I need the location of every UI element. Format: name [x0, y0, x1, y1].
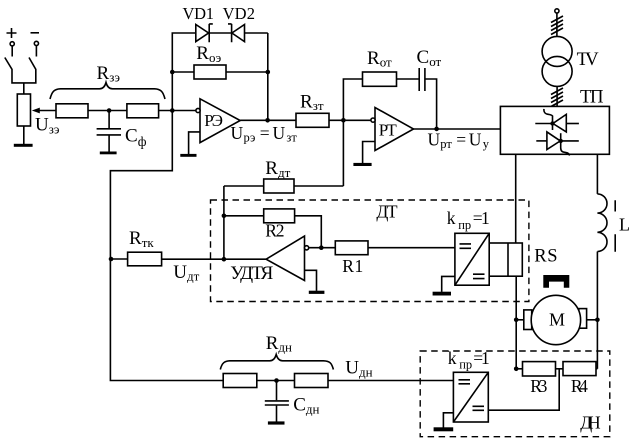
svg-text:=: = [260, 123, 270, 143]
svg-text:=1: =1 [473, 208, 490, 228]
svg-text:ТП: ТП [580, 87, 604, 108]
svg-text:=1: =1 [473, 348, 490, 368]
svg-text:VD2: VD2 [223, 4, 255, 23]
svg-text:U: U [273, 123, 286, 143]
svg-text:Rдт: Rдт [265, 158, 290, 180]
svg-text:U: U [231, 123, 244, 143]
svg-text:Cдн: Cдн [293, 395, 319, 417]
svg-text:R1: R1 [342, 256, 363, 276]
svg-text:Rзт: Rзт [300, 91, 324, 113]
svg-text:U: U [469, 129, 482, 149]
svg-text:U: U [428, 129, 441, 149]
svg-text:VD1: VD1 [183, 4, 215, 23]
svg-text:Rот: Rот [367, 48, 392, 70]
svg-text:RS: RS [534, 247, 557, 267]
svg-text:зт: зт [286, 131, 297, 145]
svg-text:Cот: Cот [417, 47, 442, 69]
svg-text:ДН: ДН [580, 413, 601, 433]
svg-text:Cф: Cф [125, 126, 147, 150]
svg-text:рт: рт [440, 137, 452, 151]
svg-text:РЭ: РЭ [204, 111, 223, 130]
svg-text:M: M [549, 310, 565, 330]
svg-text:R4: R4 [571, 376, 588, 396]
svg-text:Rзэ: Rзэ [97, 63, 121, 85]
svg-text:R2: R2 [265, 220, 284, 240]
svg-text:Uдн: Uдн [345, 358, 372, 380]
svg-text:у: у [483, 137, 490, 151]
svg-text:TV: TV [577, 49, 600, 70]
svg-text:ДТ: ДТ [376, 201, 397, 221]
svg-text:РТ: РТ [379, 121, 398, 140]
svg-text:рэ: рэ [244, 131, 256, 145]
svg-text:пр: пр [458, 218, 471, 232]
svg-text:пр: пр [459, 358, 472, 372]
svg-text:УДТЯ: УДТЯ [230, 263, 273, 284]
svg-text:k: k [448, 348, 457, 368]
svg-text:=: = [456, 129, 466, 149]
svg-text:Rоэ: Rоэ [196, 43, 221, 65]
svg-text:L: L [619, 214, 630, 234]
svg-text:k: k [447, 208, 456, 228]
svg-text:Rдн: Rдн [266, 333, 292, 355]
svg-text:Uдт: Uдт [173, 262, 199, 284]
svg-text:Rтк: Rтк [129, 228, 154, 250]
svg-text:R3: R3 [530, 376, 547, 396]
